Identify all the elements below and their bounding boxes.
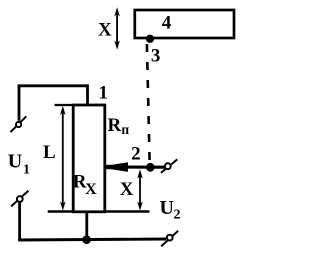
- node: junction dot on wiper (link 3 attachment): [146, 163, 155, 172]
- svg-text:R: R: [108, 115, 122, 136]
- svg-text:1: 1: [98, 82, 108, 103]
- svg-text:X: X: [85, 181, 97, 198]
- wire: lead from potentiometer bottom to bus: [85, 212, 88, 241]
- svg-text:U: U: [159, 197, 173, 219]
- terminal U1 lower (circle with slash): [11, 191, 28, 207]
- svg-text:X: X: [98, 19, 112, 40]
- potentiometer body Rп: [73, 105, 105, 212]
- wire: left vertical down from U1 lower terminal: [18, 202, 21, 240]
- mechanical link 3 (dashed): [147, 44, 150, 161]
- node: junction dot on bottom bus: [82, 235, 91, 244]
- dimension arrow X (top displacement): [114, 7, 120, 50]
- dimension arrow L (full length): [60, 106, 66, 211]
- svg-text:4: 4: [162, 12, 172, 33]
- svg-text:L: L: [43, 142, 56, 163]
- wiper 2 (slider arm with arrowhead): [105, 162, 165, 172]
- wire: lead down into potentiometer top (terminal 1): [86, 84, 89, 106]
- wire: top horizontal to terminal 1: [18, 84, 88, 87]
- svg-text:U: U: [8, 151, 22, 173]
- svg-text:1: 1: [23, 163, 30, 178]
- dimension tick top (extension of potentiometer top edge): [55, 104, 74, 106]
- svg-text:п: п: [121, 122, 129, 137]
- terminal bottom-right (circle with slash): [161, 231, 178, 246]
- node: junction dot under box 4: [146, 35, 154, 43]
- svg-text:2: 2: [131, 143, 141, 164]
- terminal wiper output (circle with slash): [161, 159, 177, 172]
- svg-text:2: 2: [174, 208, 181, 223]
- wire: bottom horizontal bus: [18, 239, 166, 240]
- terminal U1 upper (circle with slash): [10, 116, 26, 132]
- wire: top-left vertical from corner to U1 upper terminal: [18, 86, 21, 121]
- svg-text:X: X: [120, 179, 134, 200]
- dimension baseline bottom (extends both sides of potentiometer bottom): [48, 210, 150, 212]
- svg-text:3: 3: [151, 46, 161, 67]
- dimension arrow X (wiper position): [137, 169, 143, 210]
- device box 4 (movable object): [135, 10, 234, 38]
